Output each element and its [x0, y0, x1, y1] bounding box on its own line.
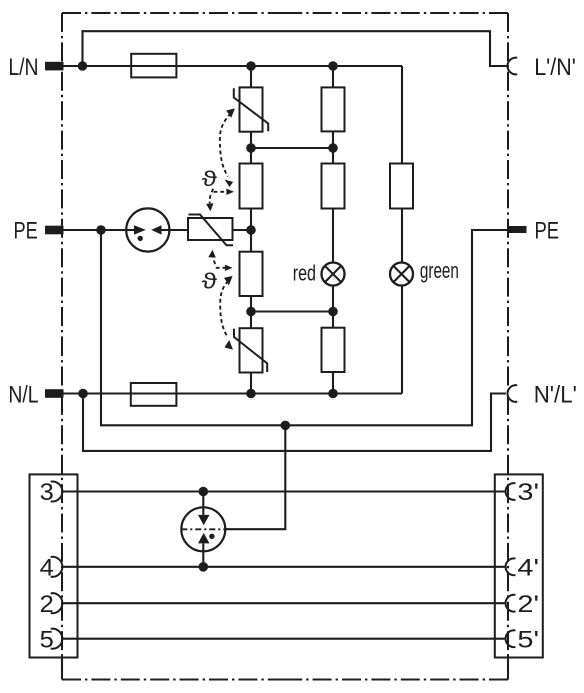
svg-text:ϑ: ϑ [202, 168, 218, 191]
svg-text:4: 4 [40, 555, 54, 581]
svg-text:N/L: N/L [8, 380, 38, 407]
svg-text:PE: PE [535, 217, 560, 244]
svg-text:3': 3' [517, 478, 539, 505]
svg-text:3: 3 [40, 480, 54, 506]
svg-text:5': 5' [517, 626, 539, 653]
svg-text:4': 4' [517, 554, 539, 581]
svg-text:5: 5 [40, 627, 54, 653]
svg-text:red: red [293, 262, 316, 286]
svg-text:2: 2 [40, 592, 54, 618]
svg-text:ϑ: ϑ [202, 269, 218, 294]
svg-text:L'/N': L'/N' [534, 53, 576, 80]
svg-text:N'/L': N'/L' [534, 381, 577, 408]
svg-text:2': 2' [517, 590, 539, 617]
svg-text:PE: PE [13, 217, 37, 244]
svg-text:L/N: L/N [8, 53, 38, 80]
svg-text:green: green [420, 259, 459, 283]
